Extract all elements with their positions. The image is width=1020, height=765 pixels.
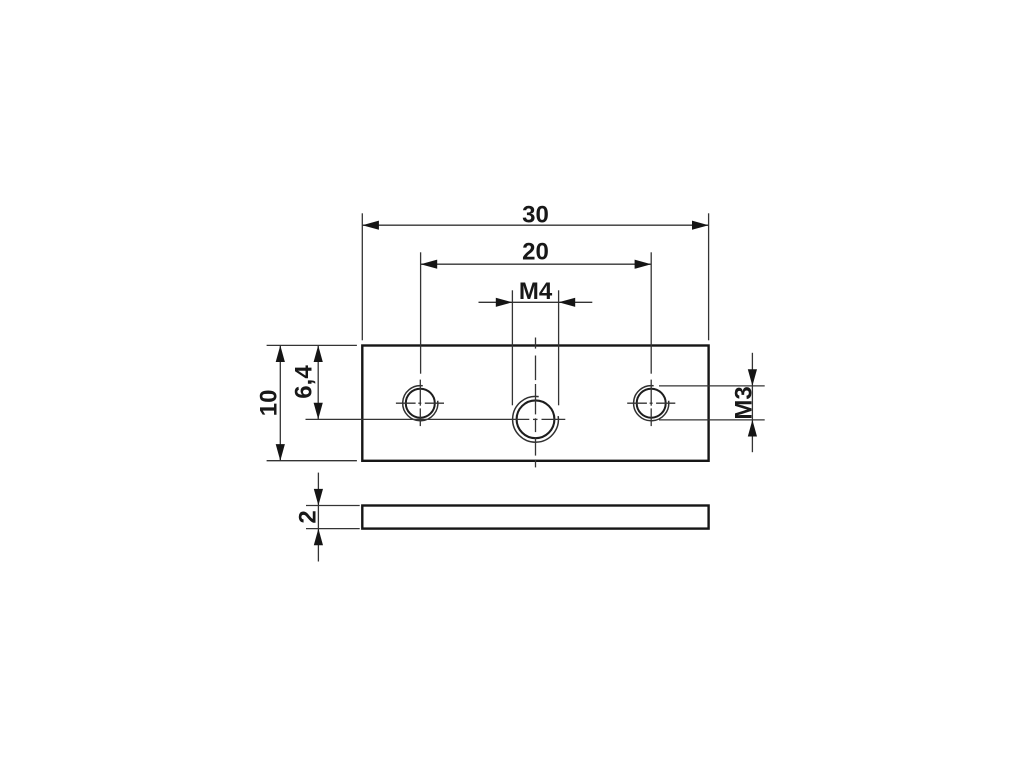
svg-text:2: 2 [294,510,321,523]
dimension 30 label [522,202,549,229]
center hole horizontal centerline right part [533,418,565,420]
svg-text:10: 10 [256,390,283,417]
right hole horizontal centerline [627,402,675,404]
dimension 10 label [256,390,283,417]
dimension 6,4 arrow bottom [314,403,323,420]
dimension 30 line [362,224,708,226]
dimension 6,4 extension line bottom [306,418,530,420]
dimension 10 line [279,345,281,460]
side view plate outline [362,506,708,529]
dimension 30 arrow left [362,221,379,230]
left hole horizontal centerline [396,402,444,404]
dimension M3 line [751,353,753,452]
dimension M3 arrow top [748,369,757,386]
dimension 6,4 label [291,365,318,399]
dimension M3 arrow bottom [748,420,757,437]
dimension M3 label [731,386,758,419]
dimension 30 extension line left [361,213,363,340]
dimension 10 arrow top [276,345,285,362]
dimension 20 arrow right [635,260,652,269]
dimension M4 arrow right [559,298,576,307]
right hole M3 thread arc [634,386,669,421]
dimension 2 arrow bottom [314,529,323,546]
center hole M4 tap drill circle [517,400,555,438]
front view plate outline [362,346,708,461]
dimension 2 extension line bottom [306,528,360,530]
dimension M4 extension line left [511,290,513,405]
dimension 20 label [522,238,549,265]
dimension M4 label [519,278,553,305]
dimension 10 extension line bottom [267,460,357,462]
right hole vertical centerline [650,380,652,427]
dimension 20 extension line right [650,252,652,373]
svg-text:20: 20 [522,238,549,265]
center hole vertical centerline [535,338,537,468]
dimension M3 extension line top [659,385,765,387]
center hole M4 thread arc [513,396,559,442]
dimension 6,4 line [317,345,319,419]
dimension M4 line right leader [559,301,593,303]
left hole vertical centerline [419,380,421,427]
dimension M4 arrow left [496,298,513,307]
dimension M4 line middle [512,301,558,303]
dimension 20 arrow left [421,260,438,269]
svg-text:6,4: 6,4 [291,365,318,399]
dimension 20 extension line left [420,252,422,373]
dimension 2 label [294,510,321,523]
left hole M3 thread arc [403,386,438,421]
dimension 2 arrow top [314,489,323,506]
dimension M4 extension line right [558,290,560,405]
dimension 6,4 arrow top [314,345,323,362]
left hole M3 tap drill circle [406,389,435,418]
svg-text:30: 30 [522,202,549,229]
dimension 20 line [421,263,652,265]
svg-text:M4: M4 [519,278,553,305]
dimension 30 extension line right [708,213,710,340]
dimension M3 extension line bottom [659,419,765,421]
dimension 2 line [317,473,319,562]
right hole M3 tap drill circle [637,389,666,418]
svg-text:M3: M3 [731,386,758,419]
dimension 10 extension line top [267,344,357,346]
dimension 10 arrow bottom [276,444,285,461]
dimension 30 arrow right [692,221,709,230]
dimension 2 extension line top [306,505,360,507]
dimension M4 line left leader [479,301,513,303]
